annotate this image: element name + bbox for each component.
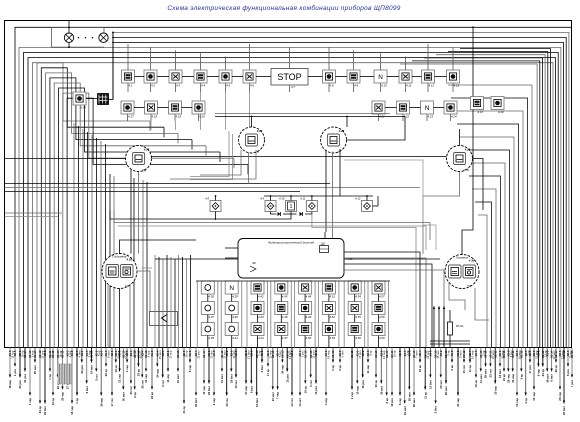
terminal pin X3-4 (155, 348, 162, 378)
svg-text:29 сер: 29 сер (558, 392, 562, 401)
svg-text:14 чер: 14 чер (144, 374, 148, 383)
terminal pin X3-10 (51, 348, 55, 406)
svg-text:19 ор: 19 ор (114, 365, 118, 373)
wire left inner verticals (74, 123, 106, 348)
svg-text:24 ор: 24 ор (38, 406, 42, 414)
svg-text:21 жел: 21 жел (271, 392, 275, 401)
svg-text:12 гол: 12 гол (290, 398, 294, 407)
terminal pin X2-10 (121, 348, 128, 402)
svg-text:17 гол: 17 гол (110, 398, 114, 407)
svg-text:23 зел: 23 зел (439, 380, 443, 389)
svg-text:10 жел: 10 жел (176, 374, 180, 383)
svg-text:29 бел: 29 бел (43, 406, 47, 415)
svg-text:X1-12: X1-12 (519, 350, 523, 358)
indicator lamp grid HL50 4.55 (348, 302, 361, 319)
svg-text:26 бел: 26 бел (207, 386, 211, 395)
terminal pin X2-13 (133, 348, 137, 398)
svg-text:4.23: 4.23 (428, 114, 434, 118)
svg-text:1 сер: 1 сер (350, 392, 354, 399)
svg-text:6 кр: 6 кр (450, 365, 454, 371)
svg-text:11 чер: 11 чер (202, 386, 206, 395)
terminal pin X3-6 (118, 348, 122, 383)
indicator lamp grid HL32 4.37 (201, 302, 214, 319)
svg-text:X3-2: X3-2 (537, 350, 541, 356)
svg-text:15 роз: 15 роз (314, 385, 318, 394)
terminal pin X3-12 (462, 348, 466, 374)
indicator lamp grid HL48 4.53 (322, 323, 335, 340)
terminal gray block X2 (wire bundle) (58, 364, 71, 384)
terminal pin X2-13 (434, 348, 441, 414)
svg-text:X1-14: X1-14 (202, 350, 206, 358)
svg-text:9 роз: 9 роз (249, 385, 253, 393)
indicator lamp HL12 4.11 (399, 70, 412, 87)
svg-text:4.12: 4.12 (429, 83, 435, 87)
indicator lamp grid HL33 4.38 (201, 323, 214, 340)
terminal pin X3-2 (537, 348, 541, 377)
gauge P3 (temperature) (447, 146, 473, 172)
svg-text:12 ор: 12 ор (51, 398, 55, 406)
svg-text:30 жел: 30 жел (121, 392, 125, 401)
svg-text:4.27: 4.27 (256, 129, 263, 133)
svg-text:4.8: 4.8 (205, 197, 209, 201)
svg-text:68 Ом: 68 Ом (456, 324, 464, 328)
terminal pin X1-1 (188, 348, 192, 373)
indicator lamp grid HL31 4.36 (201, 281, 214, 298)
svg-text:X2-4: X2-4 (418, 350, 422, 356)
svg-text:X1-13: X1-13 (331, 350, 335, 358)
svg-text:13 чер: 13 чер (532, 392, 536, 401)
terminal pin X2-6 (379, 348, 386, 395)
terminal pin X3-6 (80, 348, 84, 374)
terminal pin X3-6 (324, 348, 331, 406)
svg-text:28 бел: 28 бел (229, 374, 233, 383)
component A4.12 (quartz/osc) (355, 197, 372, 212)
terminal pin X2-3 (129, 348, 136, 395)
svg-text:X3-15: X3-15 (484, 350, 488, 358)
svg-text:4.37: 4.37 (208, 315, 214, 319)
indicator lamp HL3 4.1 (122, 70, 135, 87)
indicator lamp grid HL51 4.56 (348, 323, 361, 340)
terminal pin X3-11 (502, 348, 506, 381)
svg-text:20 ор: 20 ор (374, 380, 378, 388)
svg-text:X3-2: X3-2 (439, 350, 443, 356)
terminal pin X2-4 (140, 348, 144, 389)
svg-text:1 сер: 1 сер (125, 365, 129, 372)
svg-text:7 ор: 7 ор (48, 374, 52, 380)
indicator lamp HL16 4.17 (121, 101, 134, 118)
svg-text:X3-9: X3-9 (249, 350, 253, 356)
terminal pin X3-11 (390, 348, 397, 407)
svg-text:3 бел: 3 бел (434, 406, 438, 414)
terminal pin X1-2 (456, 348, 463, 407)
terminal pin X2-10 (271, 348, 275, 402)
indicator lamp grid HL53 4.58 (372, 302, 385, 319)
svg-text:10 бел: 10 бел (220, 374, 224, 383)
terminal pin X1-14 (550, 348, 557, 382)
display module A9 (LCD block) (238, 239, 353, 279)
svg-text:8 роз: 8 роз (566, 368, 570, 376)
svg-text:21 роз: 21 роз (23, 373, 27, 382)
indicator lamp grid HL45 4.50 (299, 323, 312, 340)
svg-text:X3-8: X3-8 (474, 350, 478, 356)
indicator lamp grid HL37 4.42 (251, 281, 264, 298)
terminal pin X1-8 (398, 348, 402, 406)
svg-text:УД: УД (142, 168, 146, 172)
terminal pin X2-11 (48, 348, 55, 380)
svg-text:4.40: 4.40 (232, 315, 238, 319)
terminal pin X1-12 (562, 348, 566, 415)
svg-text:ТХ: ТХ (467, 284, 471, 288)
svg-text:19 ор: 19 ор (474, 380, 478, 388)
svg-text:26 ор: 26 ор (104, 369, 108, 377)
terminal pin X3-3 (515, 348, 522, 407)
svg-text:23 роз: 23 роз (80, 364, 84, 373)
svg-text:4.29: 4.29 (464, 148, 471, 152)
svg-text:2 чер: 2 чер (212, 398, 216, 406)
svg-text:26 роз: 26 роз (545, 373, 549, 382)
svg-text:X1-8: X1-8 (260, 350, 264, 356)
svg-text:28 жел: 28 жел (412, 398, 416, 407)
svg-text:19 бел: 19 бел (429, 380, 433, 389)
terminal pin X3-2 (361, 348, 365, 389)
svg-text:X1-13: X1-13 (303, 350, 307, 358)
svg-text:27 кор: 27 кор (244, 386, 248, 395)
svg-text:X2-13: X2-13 (281, 350, 285, 358)
terminal pin X1-13 (444, 348, 451, 396)
svg-text:4.13: 4.13 (454, 83, 460, 87)
svg-text:X2-14: X2-14 (385, 350, 389, 358)
terminal pin X1-6 (8, 348, 15, 389)
gauge P6 tachometer (445, 255, 479, 289)
svg-text:4.25: 4.25 (126, 258, 133, 262)
terminal pin X2-13 (255, 348, 262, 407)
svg-text:X3-6: X3-6 (80, 350, 84, 356)
terminal pin X2-4 (528, 348, 532, 374)
svg-text:4.45: 4.45 (282, 294, 288, 298)
svg-text:X3-4: X3-4 (161, 350, 165, 356)
svg-text:29 чер: 29 чер (61, 392, 65, 401)
diode VD2 (300, 212, 303, 216)
svg-text:X1-6: X1-6 (450, 350, 454, 356)
svg-text:11 ор: 11 ор (468, 365, 472, 372)
svg-text:4.1: 4.1 (129, 83, 133, 87)
svg-text:4.43: 4.43 (258, 315, 264, 319)
svg-text:4.8: 4.8 (330, 83, 334, 87)
svg-text:24 кор: 24 кор (155, 369, 159, 378)
wire gauge P3 drops (423, 129, 483, 254)
connector block X5 (dark) (98, 94, 109, 105)
terminal pin X3-2 (439, 348, 443, 389)
svg-text:4.3: 4.3 (176, 83, 180, 87)
terminal pin X3-4 (194, 348, 201, 407)
terminal pin X2-5 (182, 348, 189, 414)
svg-text:1 роз: 1 роз (13, 368, 17, 376)
svg-text:1 ор: 1 ор (75, 398, 79, 404)
indicator lamp HL26 4.14 (73, 92, 86, 109)
terminal pin X1-8 (212, 348, 216, 406)
wire gauge P1 drops (170, 150, 256, 184)
indicator lamp grid HL49 4.54 (348, 281, 361, 298)
svg-text:ЖК: ЖК (251, 261, 256, 265)
svg-text:X1-1: X1-1 (188, 350, 192, 356)
svg-text:X1-8: X1-8 (150, 350, 154, 356)
svg-text:X3-8: X3-8 (290, 350, 294, 356)
terminal pin X2-5 (13, 348, 17, 377)
svg-text:18 кор: 18 кор (8, 380, 12, 389)
gauge P2 (fuel level) (321, 127, 347, 153)
terminal pin X3-9 (407, 348, 411, 402)
indicator lamp grid HL38 4.43 (251, 302, 264, 319)
wire display block feeds (225, 232, 444, 348)
svg-text:4.26: 4.26 (143, 148, 150, 152)
svg-text:24 жел: 24 жел (403, 406, 407, 415)
indicator lamp HL14 4.13 (447, 70, 460, 87)
terminal pin X3-8 (229, 348, 236, 383)
svg-text:16 кр: 16 кр (393, 350, 397, 357)
svg-text:X1-3: X1-3 (234, 350, 238, 356)
svg-text:2 гол: 2 гол (94, 374, 98, 381)
wire row1 stubs (128, 44, 453, 92)
terminal pin X1-1 (355, 348, 362, 395)
svg-text:4.38: 4.38 (208, 336, 214, 340)
component A4.9 (quartz/osc) (260, 197, 276, 212)
terminal pin X3-9 (249, 348, 253, 394)
terminal pin X2-14 (554, 348, 558, 373)
terminal pin X3-11 (511, 348, 515, 383)
wire dark drop to connector X5 (109, 32, 114, 100)
svg-text:8 кр: 8 кр (385, 398, 389, 404)
svg-text:3 кр: 3 кр (519, 374, 523, 380)
svg-text:18 чер: 18 чер (327, 350, 331, 359)
svg-text:X3-2: X3-2 (361, 350, 365, 356)
indicator lamp grid HL52 4.57 (372, 281, 385, 298)
svg-text:8 кр: 8 кр (369, 350, 373, 356)
svg-text:4.59: 4.59 (379, 336, 385, 340)
svg-text:Тахометр: Тахометр (456, 256, 469, 260)
wire top bus (8 nested wires, corners to right-side descent) (15, 27, 572, 347)
svg-text:9 ор: 9 ор (133, 392, 137, 398)
terminal pin X3-3 (366, 348, 373, 374)
wire gauge P4 drops (5, 159, 139, 254)
svg-text:4.11: 4.11 (300, 197, 306, 201)
svg-text:4.47: 4.47 (282, 336, 288, 340)
indicator lamp HL8 4.6 (243, 70, 256, 87)
indicator lamp HL6 4.4 (194, 70, 207, 87)
svg-text:X1-14: X1-14 (23, 350, 27, 358)
svg-text:ДД: ДД (320, 243, 325, 246)
svg-text:4.52: 4.52 (329, 315, 335, 319)
terminal pin X3-4 (161, 348, 165, 387)
wire long horizontals y183-191 (5, 184, 421, 192)
gauge P5 speedometer (102, 254, 137, 289)
terminal pin X1-1 (207, 348, 214, 395)
svg-text:Схема электрическая функционал: Схема электрическая функциональная комби… (167, 4, 400, 12)
component A4.11 (quartz/osc) (300, 197, 317, 212)
terminal pin X3-2 (338, 348, 345, 371)
svg-text:4.2: 4.2 (151, 83, 155, 87)
svg-text:4.20: 4.20 (199, 114, 205, 118)
svg-text:4.6: 4.6 (250, 83, 254, 87)
terminal pin X2-1 (114, 348, 121, 373)
svg-text:25 жел: 25 жел (33, 365, 37, 374)
svg-text:X3-13: X3-13 (374, 350, 378, 358)
terminal pin X3-5 (558, 348, 565, 401)
svg-text:X3-10: X3-10 (61, 350, 65, 358)
lamp HL1 (64, 33, 73, 42)
indicator lamp HL20 4.21 (372, 101, 385, 118)
svg-text:4.44: 4.44 (258, 336, 264, 340)
svg-text:X3-7: X3-7 (99, 350, 103, 356)
svg-text:19 ор: 19 ор (303, 386, 307, 394)
terminal pin X1-12 (519, 348, 523, 380)
svg-text:30 бел: 30 бел (194, 398, 198, 407)
svg-text:N: N (425, 105, 430, 112)
svg-text:4.57: 4.57 (379, 294, 385, 298)
terminal pin X3-15 (484, 348, 488, 379)
terminal pin X1-11 (350, 348, 354, 400)
svg-text:17 кр: 17 кр (266, 369, 270, 376)
terminal pin X1-5 (85, 348, 92, 394)
svg-text:4.18: 4.18 (152, 114, 158, 118)
svg-text:4.7: 4.7 (291, 85, 295, 89)
svg-text:4 кор: 4 кор (324, 398, 328, 405)
svg-text:4.12: 4.12 (355, 197, 361, 201)
terminal pin X2-10 (285, 348, 292, 383)
svg-text:4.42: 4.42 (258, 294, 264, 298)
indicator lamp HL13 4.12 (422, 70, 435, 87)
terminal pin X2-9 (110, 348, 114, 407)
svg-text:4.10: 4.10 (279, 197, 285, 201)
indicator lamp grid HL40 4.45 (275, 281, 288, 298)
svg-text:19 кр: 19 кр (137, 369, 141, 376)
terminal pin X2-2 (43, 348, 47, 415)
terminal pin X1-13 (331, 348, 335, 371)
terminal pin X3-2 (225, 348, 229, 407)
terminal pin X2-13 (423, 348, 430, 399)
svg-text:4.5: 4.5 (226, 83, 230, 87)
terminal pin X2-7 (75, 348, 82, 404)
svg-text:10 кор: 10 кор (355, 386, 359, 395)
svg-text:24 чер: 24 чер (456, 398, 460, 407)
svg-text:12 роз: 12 роз (285, 373, 289, 382)
terminal pin X3-6 (498, 348, 505, 378)
terminal pin X3-13 (176, 348, 180, 384)
terminal pin X1-13 (303, 348, 307, 394)
terminal pin X2-9 (532, 348, 539, 401)
wire grid rails (196, 281, 390, 348)
terminal pin X3-9 (429, 348, 433, 389)
terminal pin X1-14 (33, 348, 37, 375)
indicator lamp grid HL42 4.47 (275, 323, 288, 340)
terminal pin X1-14 (570, 348, 574, 388)
wire center drops below row1/row2 (151, 92, 250, 130)
indicator lamp grid HL46 4.51 (322, 281, 335, 298)
indicator lamp HL22 4.23 (421, 101, 434, 118)
indicator lamp HL5 4.3 (169, 70, 182, 87)
svg-text:Спидометр: Спидометр (112, 255, 127, 259)
terminal pin X2-5 (524, 348, 531, 404)
svg-text:УТО: УТО (463, 168, 469, 172)
svg-text:22 кр: 22 кр (150, 392, 154, 399)
terminal pin X3-13 (28, 348, 34, 406)
svg-text:19 роз: 19 роз (390, 397, 394, 406)
indicator lamp HL24 4.15 (471, 97, 484, 114)
svg-text:УТ: УТ (337, 149, 341, 153)
indicator lamp HL18 4.19 (169, 101, 182, 118)
wire gray pair left of gauge P1 (190, 131, 233, 180)
svg-text:30 гол: 30 гол (225, 398, 229, 407)
svg-text:4.48: 4.48 (306, 294, 312, 298)
svg-text:4.11: 4.11 (406, 83, 412, 87)
terminal pin X1-6 (70, 348, 74, 415)
svg-text:4.24: 4.24 (451, 114, 457, 118)
terminal pin X1-14 (23, 348, 27, 383)
terminal pin X1-15 (309, 348, 316, 387)
indicator lamp HL10 4.9 (347, 70, 360, 87)
svg-text:12 кор: 12 кор (169, 350, 173, 359)
indicator STOP box 4.7 (271, 69, 308, 90)
svg-text:29 ор: 29 ор (554, 365, 558, 373)
terminal pin X3-7 (99, 348, 103, 407)
svg-text:23 роз: 23 роз (18, 379, 22, 388)
indicator lamp grid HL44 4.49 (299, 302, 312, 319)
svg-text:X3-13: X3-13 (176, 350, 180, 358)
svg-text:4.39: 4.39 (232, 294, 238, 298)
svg-text:7 роз: 7 роз (570, 379, 574, 387)
terminal pin X3-13 (374, 348, 378, 388)
svg-text:X3-12: X3-12 (462, 350, 466, 358)
terminal pin X2-10 (90, 348, 94, 375)
gauge P4 (pressure) (126, 146, 152, 172)
svg-text:4.41: 4.41 (232, 336, 238, 340)
terminal pin X3-12 (137, 348, 144, 377)
svg-text:18 зел: 18 зел (234, 380, 238, 389)
terminal pin X1-6 (450, 348, 454, 371)
indicator lamp HL9 4.8 (323, 70, 336, 87)
terminal pin X1-14 (56, 348, 63, 390)
wire gauge P2 drops (326, 149, 340, 238)
terminal pin X2-11 (489, 348, 496, 378)
svg-text:4.4: 4.4 (201, 83, 205, 87)
svg-text:28 жел: 28 жел (407, 392, 411, 401)
wire diamond row bus (215, 195, 373, 220)
svg-text:X2-11: X2-11 (493, 350, 497, 358)
svg-text:24 чер: 24 чер (281, 365, 285, 374)
indicator lamp grid HL34 4.39 (225, 281, 238, 298)
indicator lamp grid HL47 4.52 (322, 302, 335, 319)
svg-text:X3-9: X3-9 (407, 350, 411, 356)
terminal pin X2-7 (468, 348, 475, 373)
terminal pin X3-10 (61, 348, 65, 401)
svg-text:23 ор: 23 ор (541, 369, 545, 377)
wire speedometer feeds (108, 240, 196, 348)
terminal pin X3-8 (290, 348, 294, 407)
svg-text:Жидкокристаллический дисплей: Жидкокристаллический дисплей (267, 241, 315, 245)
svg-text:9 чер: 9 чер (537, 369, 541, 377)
wire bus y156 across gauges (152, 156, 447, 158)
svg-text:X3-9: X3-9 (429, 350, 433, 356)
svg-text:X2-10: X2-10 (90, 350, 94, 358)
indicator lamp HL21 4.22 (397, 101, 410, 118)
terminal pin X2-5 (125, 348, 129, 373)
terminal pin X2-1 (298, 348, 305, 407)
svg-text:11 чер: 11 чер (366, 365, 370, 374)
terminal pin X2-9 (18, 348, 25, 389)
wire mid verticals under gauge P4 (110, 174, 147, 348)
svg-text:STOP: STOP (277, 72, 301, 82)
svg-text:11 жел: 11 жел (479, 374, 483, 383)
indicator lamp grid HL35 4.40 (225, 302, 238, 319)
